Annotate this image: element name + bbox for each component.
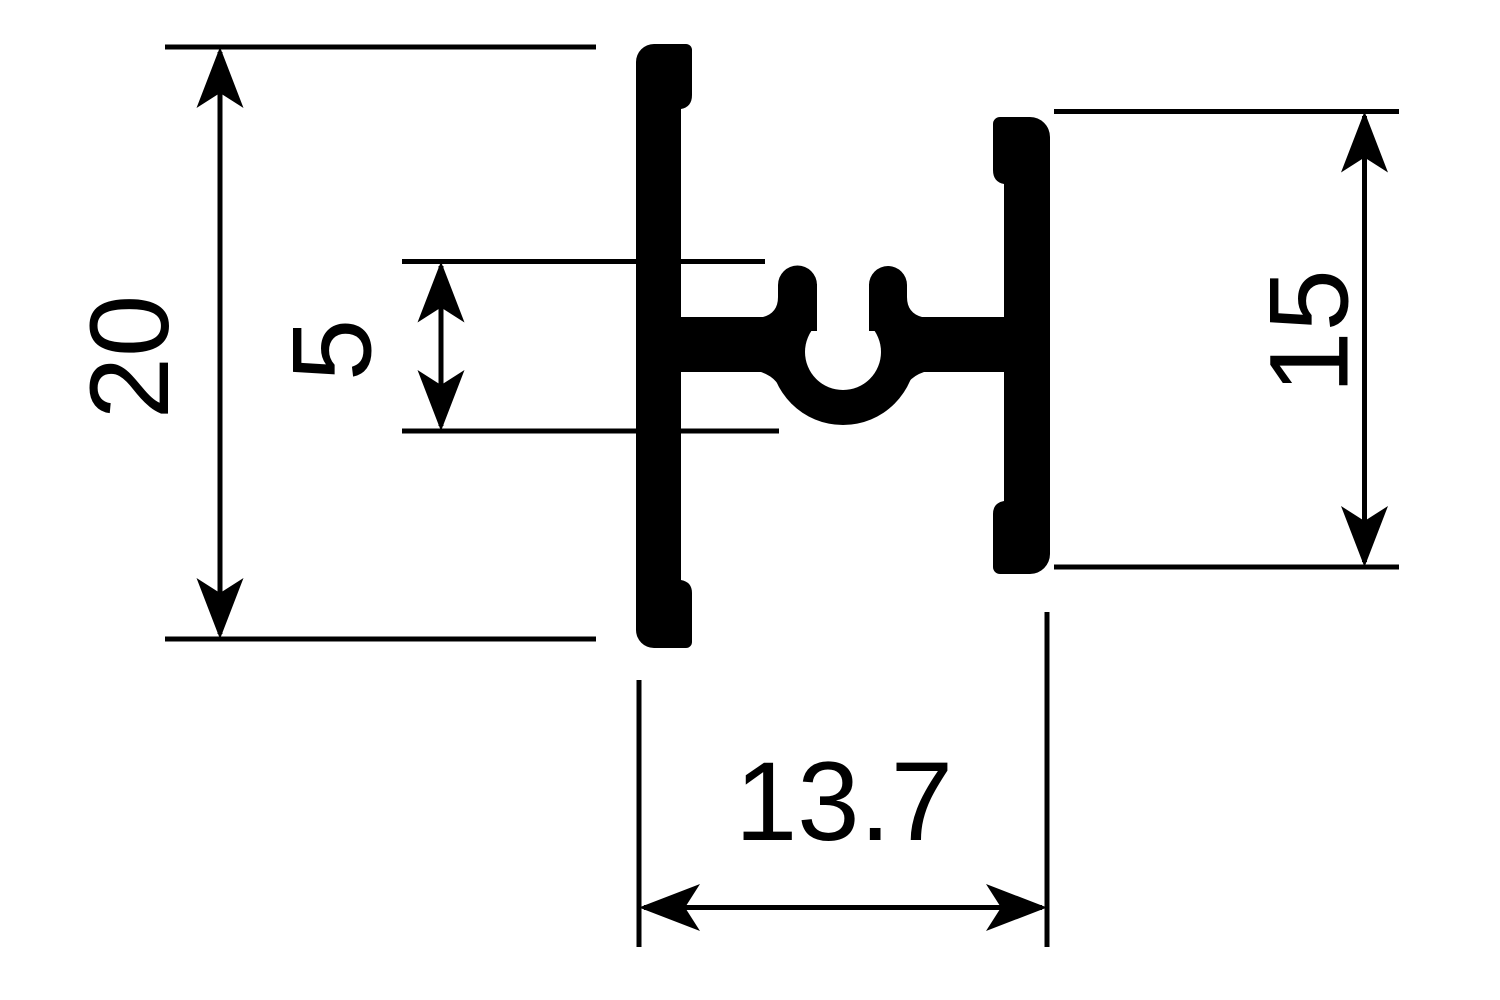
web right segment [898, 317, 1008, 372]
profile left flange [636, 44, 692, 648]
dimension line 20 [218, 52, 223, 634]
extension line bottom of 5 dim [402, 429, 779, 434]
dimension line 13.7 [644, 905, 1042, 910]
arrowhead 5 bottom [418, 370, 465, 431]
fillet prong right to web [907, 297, 922, 317]
fillet prong left to web [763, 297, 778, 317]
svg-text:5: 5 [270, 319, 395, 381]
web left segment [676, 317, 790, 372]
extension line top of 20 dim [165, 45, 596, 50]
svg-text:13.7: 13.7 [735, 739, 953, 864]
svg-text:15: 15 [1247, 269, 1372, 394]
extension line top of 15 dim [1054, 109, 1399, 114]
arrowhead 20 top [197, 47, 244, 108]
dimension line 5 [439, 266, 444, 426]
fillet ring right to web bottom [904, 372, 924, 390]
extension line bottom of 20 dim [165, 637, 596, 642]
svg-text:20: 20 [67, 295, 192, 420]
clip slot opening [817, 250, 869, 352]
profile right flange [993, 117, 1050, 574]
clip right prong [869, 266, 907, 331]
extension line top of 5 dim [402, 259, 765, 264]
fillet ring left to web bottom [761, 372, 781, 390]
clip ring outer [770, 279, 916, 425]
arrowhead 13.7 left [639, 884, 700, 931]
extension line right of 13.7 dim [1045, 612, 1050, 947]
clip left prong [778, 266, 817, 332]
arrowhead 5 top [418, 262, 465, 323]
arrowhead 15 top [1341, 112, 1388, 173]
dimension line 15 [1362, 116, 1367, 562]
arrowhead 15 bottom [1341, 506, 1388, 567]
clip ring inner hole [805, 314, 881, 390]
extension line left of 13.7 dim [637, 680, 642, 947]
extension line bottom of 15 dim [1054, 565, 1399, 570]
arrowhead 13.7 right [986, 884, 1047, 931]
arrowhead 20 bottom [197, 578, 244, 639]
